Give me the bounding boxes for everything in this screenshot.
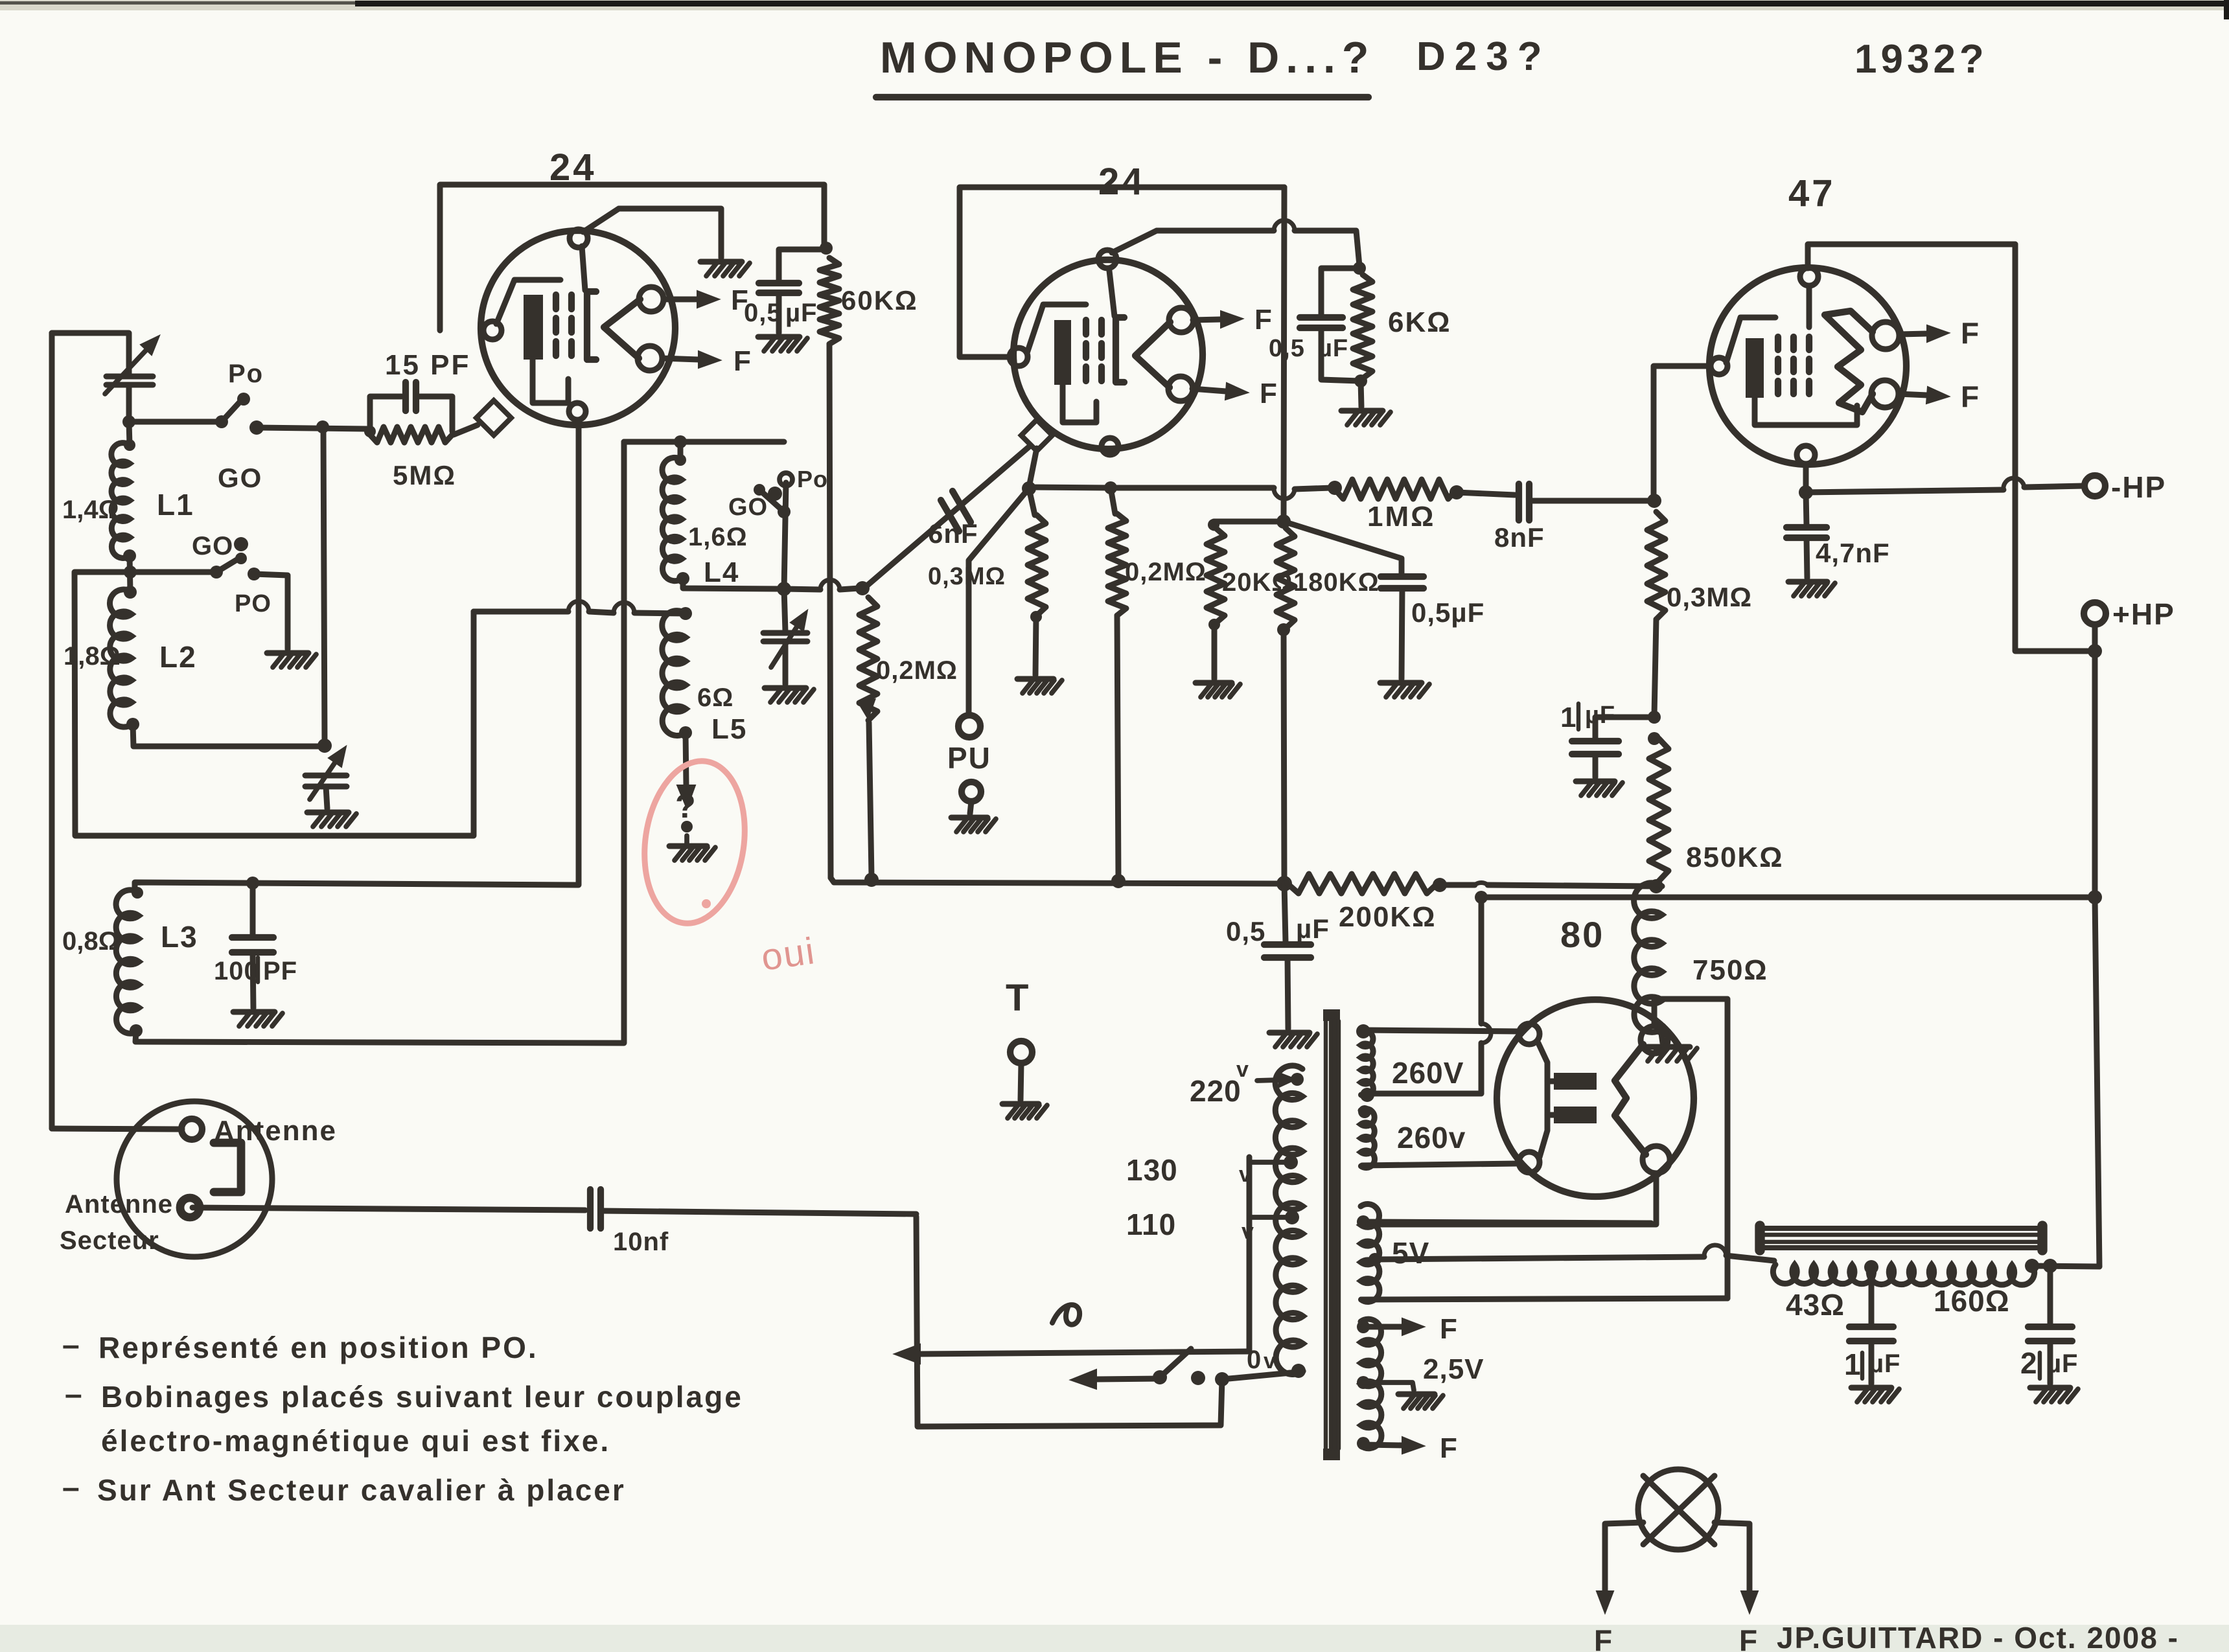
label S3 Po [797,466,828,492]
svg-text:F: F [1440,1313,1457,1345]
tube V1 label 24 [549,146,597,189]
wire mains vert [1247,1157,1253,1351]
resistor 200K [1288,874,1437,893]
svg-text:260V: 260V [1392,1056,1464,1090]
coil 43ohm [1773,1265,1873,1284]
arrow V1 F2 [662,345,751,377]
junction 20K bot [1208,619,1220,630]
wire V4 fil bot [1369,1173,1656,1224]
junction 1uF top [1648,711,1661,724]
wire bus911 [784,580,859,590]
note line3 [101,1424,610,1458]
junction busA 180K [1276,876,1292,891]
capacitor 100PF [232,883,273,952]
svg-text:+HP: +HP [2112,597,2175,631]
label L1 [157,488,194,522]
junction 260V1 bot [1360,1088,1374,1102]
wire 15pF box [370,396,452,431]
svg-text:Bobinages placés suivant leur: Bobinages placés suivant leur couplage [101,1380,743,1414]
wire 2uF gnd [2048,1341,2053,1384]
wire V1 grid to 5M [454,425,478,435]
arrow lamp F2 [1739,1534,1758,1652]
tube V2 grid square [1021,420,1052,451]
svg-text:Sur Ant Secteur cavalier à pla: Sur Ant Secteur cavalier à placer [97,1473,626,1507]
svg-text:43Ω: 43Ω [1786,1288,1845,1322]
arrow V2 F2 [1192,378,1277,409]
label 5V [1392,1236,1429,1270]
pin V3 F2 [1871,380,1899,407]
pin V2 F2 [1168,376,1193,401]
junction 750 bot [1654,1022,1667,1035]
label 0.2M pot [876,656,958,685]
svg-text:6KΩ: 6KΩ [1388,306,1451,338]
label 0.3M out [1667,582,1752,612]
junction 1M left [1328,481,1342,495]
svg-text:µF: µF [1585,702,1615,729]
title D23? [1416,34,1551,79]
ground 1uF [1576,781,1623,796]
label 850K [1686,842,1783,873]
terminal -HP [2085,476,2105,496]
wire 5V top [1357,1215,1651,1228]
coil 260V2 [1361,1108,1374,1167]
label L4 [704,556,739,588]
wire +HP down [2092,651,2098,897]
svg-text:1: 1 [1560,702,1576,733]
wire L2 box left [75,572,474,836]
wire V1 grid cap [583,209,721,258]
ground 0.5uF3 [1380,683,1429,697]
junction 260V2 top [1358,1105,1371,1118]
wire 1M to 8nF [1457,492,1515,495]
svg-text:8nF: 8nF [1494,522,1545,553]
label 0.5uF1 [744,299,817,327]
svg-text:GO: GO [192,532,233,560]
svg-text:0,3MΩ: 0,3MΩ [1667,582,1752,612]
ground 2uF [2030,1388,2078,1402]
tube V3 label 47 [1788,172,1836,214]
label 1M [1367,501,1435,533]
wire 8nF to V3 [1529,498,1651,504]
wire 0.3M gnd [1035,617,1036,675]
label S2 PO [235,590,271,617]
terminal Secteur [180,1198,200,1217]
svg-text:GO: GO [728,494,768,521]
svg-text:PU: PU [947,741,991,775]
svg-text:1: 1 [1844,1348,1862,1381]
label 100PF [214,957,297,985]
coil L4 [662,457,682,580]
label 180K [1293,568,1380,597]
wire S1 to node [257,428,367,429]
label 0.2M2 [1125,558,1207,586]
junction V3 out [1799,485,1813,499]
wire out to -HP [1806,478,2084,492]
switch S3 wire [784,483,786,589]
coil L5 [662,611,686,736]
wire PU line [969,490,1028,715]
tube V1 grid dashes [556,295,572,356]
pin V1 top [570,229,588,247]
wire 6nF diagonal [862,446,1030,590]
svg-text:1,8Ω: 1,8Ω [64,642,121,671]
coil L3 [116,890,139,1034]
wire V2 box [960,187,1284,357]
junction busA 0.2M2 [1111,874,1126,888]
wire 0.5uF2 top [1321,268,1359,316]
wire ? stem [684,836,689,843]
arrow V2 F1 [1193,304,1272,336]
terminal PU2 [962,782,981,801]
junction 60K top [820,242,833,255]
tube V1 grid square [476,400,511,435]
wire 0.3M-850K [1654,619,1656,715]
tube V4 plate wires [1538,1043,1554,1157]
junction prim bottom [1291,1364,1306,1378]
wire pot down [869,722,872,876]
coil primary [1275,1066,1303,1375]
ground 1uFc [1851,1388,1899,1402]
label 6nF [928,518,978,549]
svg-text:0,3MΩ: 0,3MΩ [928,563,1006,590]
ground T [1002,1104,1047,1118]
resistor 0.3M pu [1028,515,1046,615]
pin V1 plate F1 [639,287,664,312]
tube V2 cathode [1027,304,1096,422]
wire L3 top [135,420,579,893]
svg-text:µF: µF [1296,913,1330,944]
switch S2 contact [248,568,260,580]
switch S3 contact top [780,473,792,486]
wire to switch1 [129,419,218,425]
svg-text:JP.GUITTARD - Oct. 2008 -: JP.GUITTARD - Oct. 2008 - [1777,1621,2179,1652]
wire bus942 to L5 [679,607,692,620]
junction 180K top [1276,514,1291,529]
arrow V1 F1 [664,284,748,316]
wire 20K leg [1208,519,1284,531]
resistor 6K [1353,275,1372,378]
terminal T [1010,1041,1032,1063]
ground varcap2L [307,812,356,827]
label 130v [1126,1153,1251,1187]
pin V2 F1 [1169,308,1194,332]
wire V3 box top [1808,244,2015,480]
wire busB [1481,895,2093,901]
wire 180K down [1284,630,1284,881]
label Antenne2 [65,1190,173,1219]
svg-text:PF: PF [263,957,297,985]
capacitor 0.5uF4 [1264,884,1311,958]
label L2 value [64,642,121,671]
svg-text:200KΩ: 200KΩ [1339,901,1436,933]
wire 260V2 bot [1362,1164,1519,1165]
pin V1 plate F2 [638,346,662,371]
svg-text:oui: oui [759,930,818,979]
svg-text:80: 80 [1560,914,1604,955]
switch S0 lever [1153,1349,1191,1384]
capacitor 15PF [406,382,416,411]
arrow 220v [1257,1073,1304,1087]
svg-text:–: – [62,1471,80,1505]
label 260V2 [1397,1121,1466,1154]
svg-text:L4: L4 [704,556,739,588]
tube V1 envelope [481,231,675,425]
svg-text:2: 2 [2020,1346,2038,1380]
wire T gnd [1021,1063,1021,1100]
wire 260V1 top [1363,1030,1519,1031]
wire 2.5V tap [1357,1376,1414,1390]
label T [1006,977,1030,1019]
svg-text:F: F [1961,316,1979,350]
svg-text:750Ω: 750Ω [1692,954,1768,986]
wire bus752 [1029,487,1332,499]
note line1 [62,1328,538,1364]
junction 850K bottom [1649,879,1663,893]
junction 6K bottom [1354,374,1367,387]
resistor 850K [1649,739,1669,881]
svg-text:6Ω: 6Ω [697,683,733,712]
ground 0.5uF1 [758,337,807,351]
svg-text:L1: L1 [157,488,194,522]
svg-text:T: T [1006,977,1030,1019]
wire top-left to varcap [52,333,129,374]
terminal PU1 [958,715,980,737]
svg-text:0,5: 0,5 [744,299,782,327]
wire 10nF right [601,1211,916,1214]
label L5 [711,713,747,745]
switch S2 lever [210,553,247,579]
coil L2 [110,590,132,727]
pin V3 top [1800,268,1818,286]
varcap C1 [105,336,159,394]
junction busA pot [864,873,879,887]
svg-text:?: ? [675,788,696,825]
note line2 [65,1377,743,1414]
switch S3 lever [754,484,791,518]
label 0.5uF2 [1269,335,1348,362]
resistor 0.2M pot [859,597,877,720]
arrow V3 F2 [1899,380,1979,413]
svg-text:–: – [62,1328,80,1362]
junction L3 top [132,887,143,899]
capacitor 1uF bias [1572,741,1619,754]
junction L4 bottom [676,572,689,585]
svg-text:MONOPOLE - D...?: MONOPOLE - D...? [880,33,1375,82]
label 220v [1190,1057,1249,1108]
label Secteur [60,1226,159,1255]
lamp cross [1643,1476,1715,1544]
junction 260V1 top [1356,1024,1370,1038]
choke core [1759,1226,2044,1250]
junction 6K top [1353,262,1366,275]
svg-text:PO: PO [235,590,271,617]
coil 160ohm [1869,1265,2034,1285]
label 6K [1388,306,1451,338]
antenna circle [117,1101,272,1257]
wire rect HT vert [1471,897,1491,1094]
wire 0.5uF1 gnd stem [776,293,782,333]
capacitor 8nF [1519,484,1529,520]
wire V2 grid horiz [1112,220,1359,266]
svg-text:Représenté en position PO.: Représenté en position PO. [98,1331,538,1364]
svg-text:0,8Ω: 0,8Ω [62,927,119,956]
junction L5 bottom [679,726,692,739]
wire varcap3 gnd [783,641,789,684]
pin V3 left [1711,358,1727,374]
label Antenne [214,1115,337,1147]
red oval [634,755,755,930]
tube V1 filament [604,299,640,358]
junction varcap2R [777,582,791,596]
svg-text:60KΩ: 60KΩ [841,285,918,315]
pin V2 bottom [1102,438,1118,455]
resistor 1M [1335,479,1457,499]
label L3 [161,920,198,954]
svg-text:1,4Ω: 1,4Ω [62,496,119,524]
label 8nF [1494,522,1545,553]
pin V4 topright [1641,1026,1668,1053]
antenna bracket [214,1143,241,1192]
tube V3 envelope [1709,268,1906,465]
svg-text:-HP: -HP [2111,470,2166,504]
svg-text:D23?: D23? [1416,34,1551,79]
label S3 GO [728,487,782,521]
svg-text:0,2MΩ: 0,2MΩ [876,656,958,685]
wire 0.5uF2 bot [1321,328,1359,381]
tube V1 plate [582,246,596,360]
wire V4 fil top [1654,999,1727,1298]
junction L1 bottom [123,549,136,562]
wire 5V mid [1369,1245,1774,1266]
label 43 [1786,1288,1845,1322]
wire L1 stub [124,422,135,451]
label L4 value [688,523,748,551]
tube V3 filament [1825,311,1873,412]
wire 1uFc gnd [1869,1341,1875,1384]
junction 200K right [1433,878,1447,892]
tube V4 filament [1615,1044,1646,1154]
switch S0 arrow [1070,1370,1160,1389]
wire 4.7nF gnd [1807,538,1807,578]
tube V2 envelope [1013,260,1203,449]
wire L3 bottom [135,442,624,1043]
wire S0 down [916,1217,1222,1427]
svg-text:850KΩ: 850KΩ [1686,842,1783,873]
label 0.5uF3 [1411,597,1484,628]
wire 0.5uF1 top [779,249,824,283]
svg-text:0,5: 0,5 [1226,916,1265,946]
label 60K [841,285,918,315]
junction busB right [2088,890,2102,904]
wire 0.3M stub [1029,488,1035,515]
svg-text:L5: L5 [711,713,747,745]
junction sw2 wire [124,566,137,579]
label 20K [1222,568,1293,597]
svg-text:4,7nF: 4,7nF [1816,538,1890,568]
svg-text:L3: L3 [161,920,198,954]
wire 1uF gnd [1593,754,1599,777]
varcap C2 left [305,746,347,799]
svg-text:v: v [1236,1057,1249,1082]
capacitor 4.7nF [1786,492,1827,538]
signature [1777,1621,2179,1652]
wire 0.5uF4 gnd [1288,958,1288,1029]
terminal +HP [2084,602,2106,625]
svg-text:5MΩ: 5MΩ [393,460,456,490]
wire ant left [52,1129,182,1129]
wire 0.2M2 down [1117,615,1118,878]
svg-text:GO: GO [218,463,262,493]
label 2.5V [1423,1353,1484,1385]
coil 260V1 [1361,1031,1373,1097]
svg-text:F: F [1739,1623,1757,1652]
svg-text:F: F [1260,378,1277,409]
wire 20K gnd [1212,625,1218,679]
svg-text:L2: L2 [159,640,197,674]
label L5 value [697,683,733,712]
wire 6K gnd [1361,381,1361,407]
red oui [759,930,818,979]
svg-text:0,5µF: 0,5µF [1411,597,1484,628]
arrow L5 down [677,733,695,809]
svg-text:260v: 260v [1397,1121,1466,1154]
label 260V1 [1392,1056,1464,1090]
tube V4 envelope [1497,1000,1694,1197]
wire busA [831,878,1282,884]
label 5M [393,460,456,490]
tube V2 filament [1135,322,1170,387]
pin V4 botleft [1519,1152,1540,1173]
svg-text:électro-magnétique qui est fix: électro-magnétique qui est fixe. [101,1424,610,1458]
capacitor 0.5uF1 [759,283,799,293]
svg-text:2,5V: 2,5V [1423,1353,1484,1385]
label +HP [2112,597,2175,631]
svg-text:5V: 5V [1392,1236,1429,1270]
wire 0.5uF3 diag [1284,522,1402,574]
wire rect HT horiz [1369,1091,1481,1097]
wire L4 bottom [683,579,781,589]
junction L3 bottom [130,1024,143,1037]
svg-text:220: 220 [1190,1074,1242,1108]
wire left border [49,333,55,1129]
switch S0 contacts [1191,1371,1229,1386]
svg-text:F: F [733,345,751,377]
junction L2 top [124,586,137,599]
ground 750 [1641,1047,1697,1061]
tube V3 plate wire [1807,286,1812,327]
svg-text:15 PF: 15 PF [385,349,470,381]
tube V2 plate [1109,271,1124,382]
pin V2 top [1098,250,1116,268]
wire 0.5uF3 gnd [1402,588,1402,679]
label 10nf [613,1228,669,1256]
junction L2 bottom [126,718,139,731]
lamp circle [1638,1469,1718,1550]
wire L4 box top [624,439,784,445]
label L1 value [62,496,119,524]
pin V4 topleft [1519,1024,1540,1044]
label ? mark [675,788,696,832]
wire L1-L2 [130,556,130,592]
pin V3 F1 [1872,322,1899,349]
svg-text:Po: Po [228,360,264,388]
wire 160 to +HP [2032,1266,2099,1267]
junction 850K top [1648,732,1661,745]
transformer core [1323,1009,1340,1460]
ground ? [669,846,715,860]
switch S1 lever [215,393,250,428]
wire bus942 [474,601,684,614]
